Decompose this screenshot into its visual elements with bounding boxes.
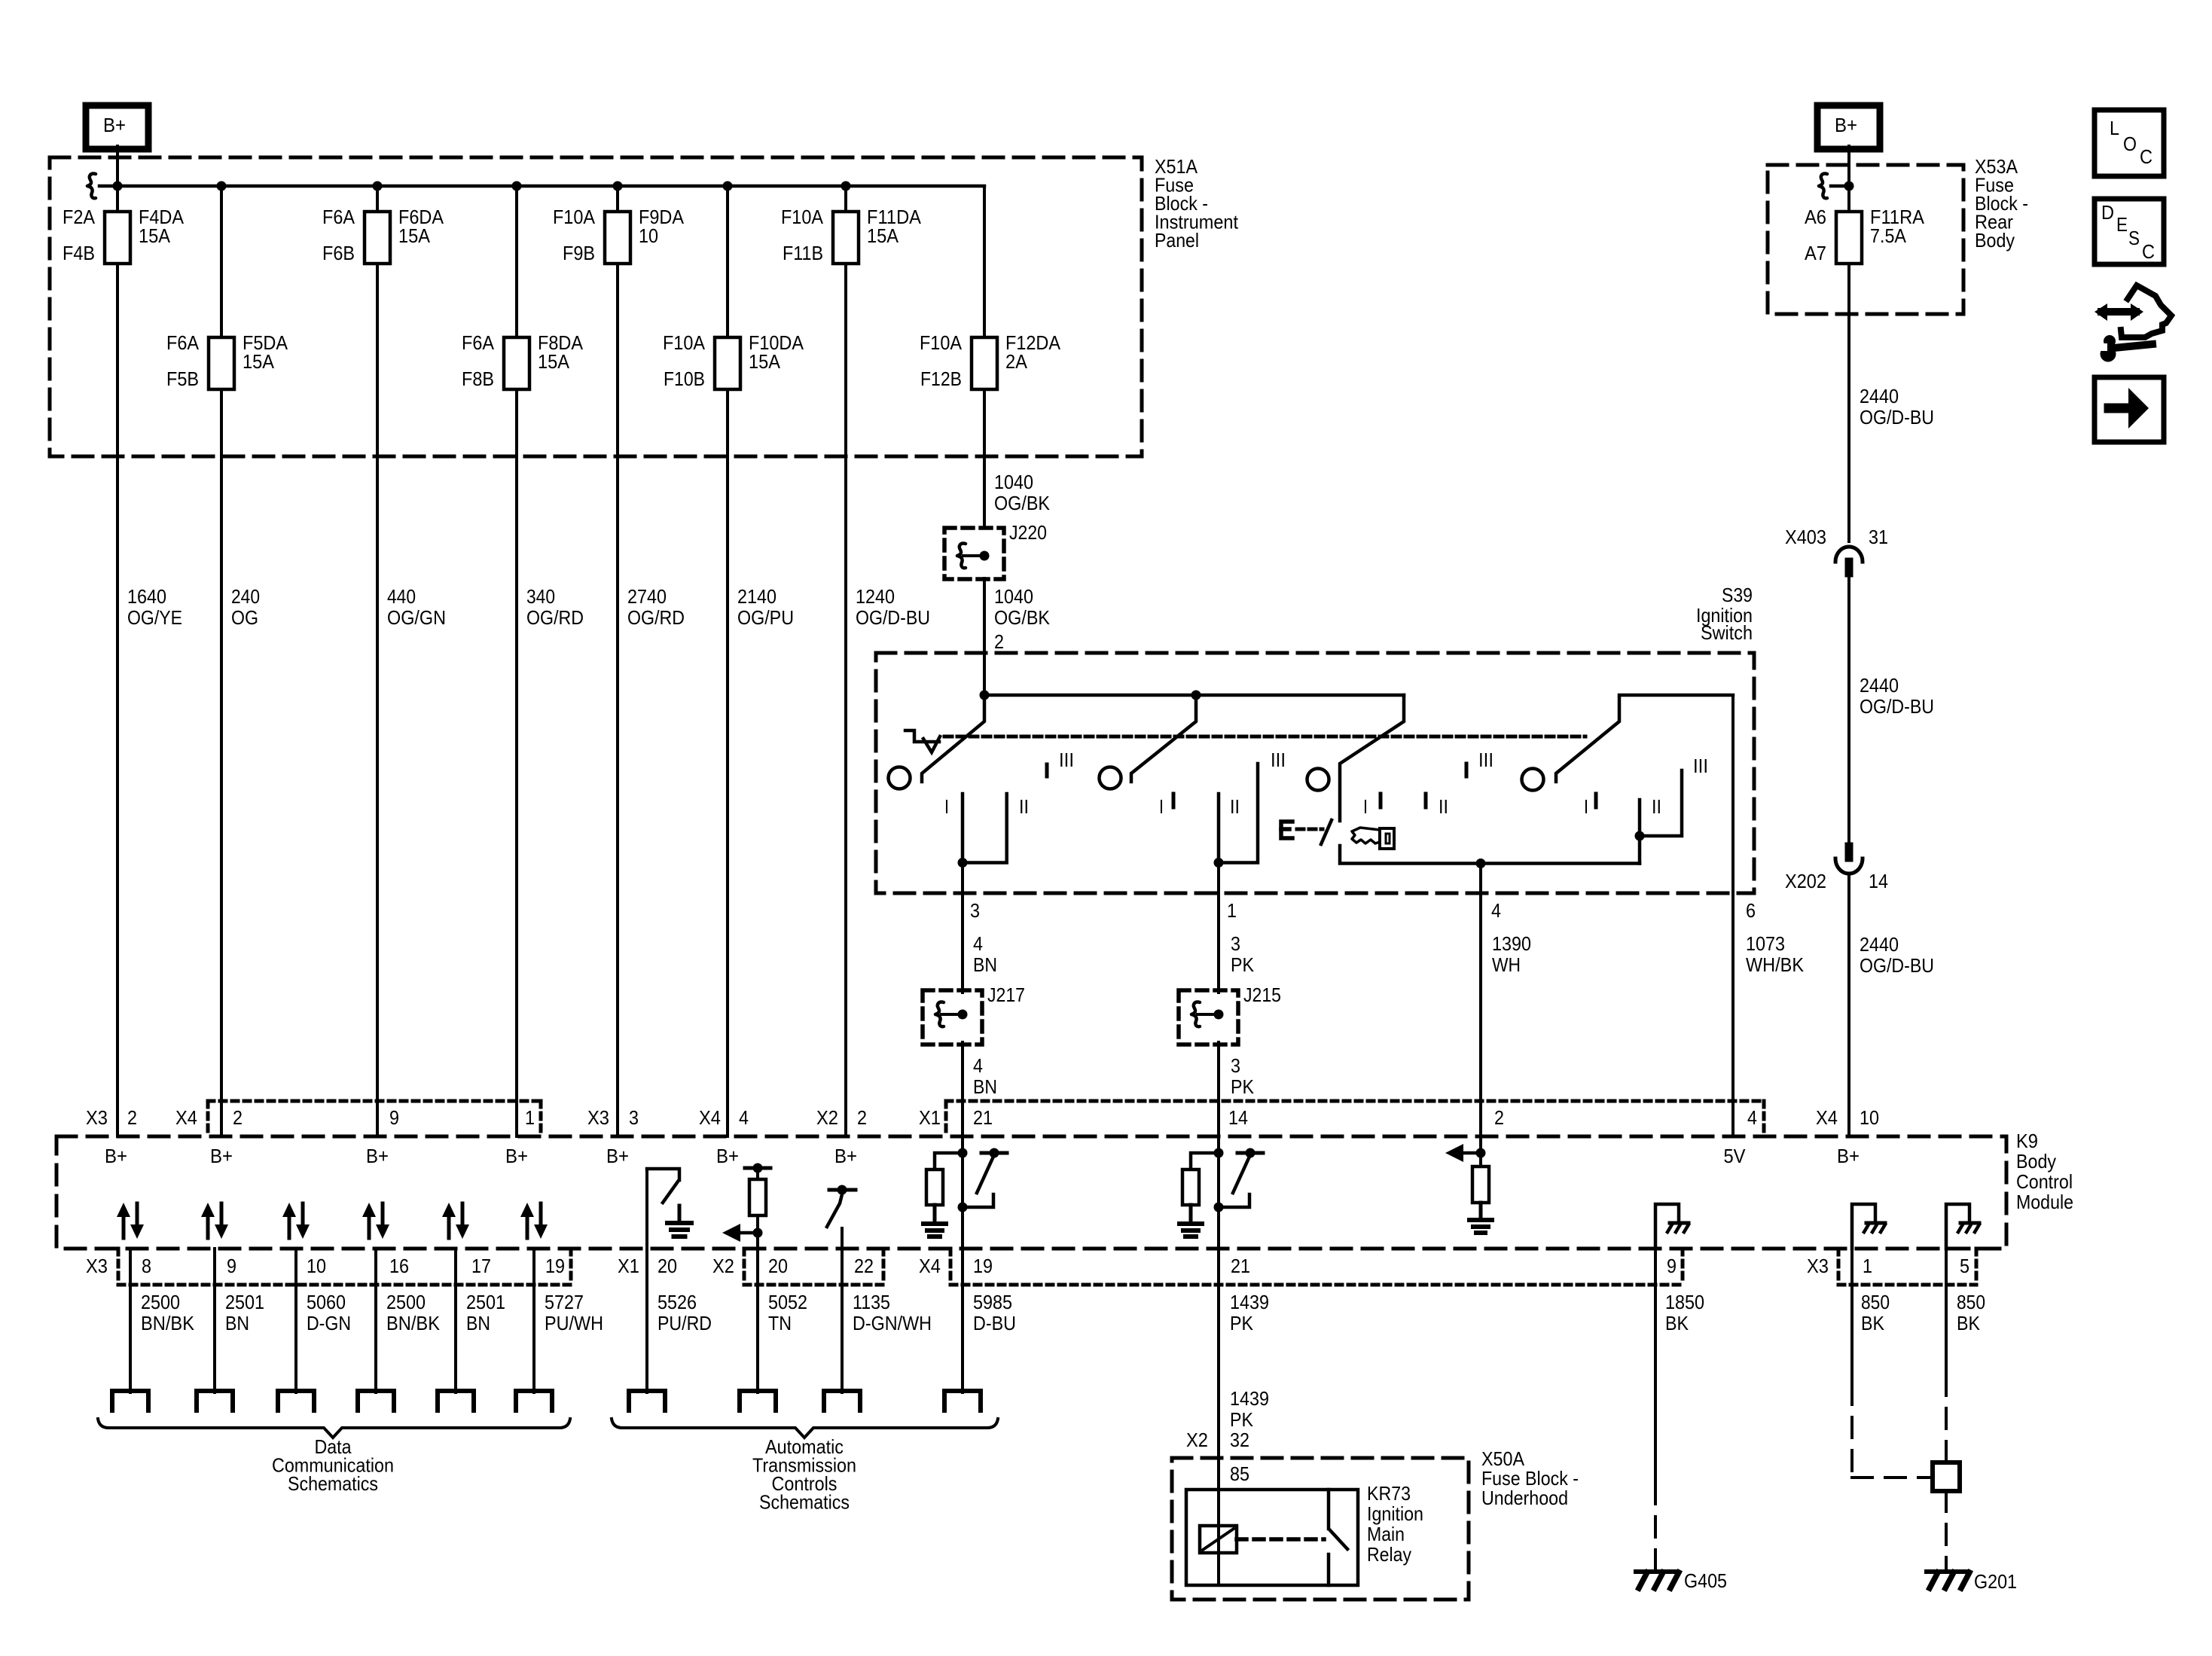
svg-text:F12B: F12B <box>920 367 962 390</box>
fuse block X53A box <box>1768 165 1963 314</box>
svg-text:17: 17 <box>471 1255 491 1277</box>
BCM internal switch (pin X2-22) <box>829 1188 856 1192</box>
svg-text:O: O <box>2123 133 2137 155</box>
S39 pin 4 wire <box>1479 864 1482 1137</box>
svg-text:II: II <box>1439 795 1448 818</box>
svg-text:15A: 15A <box>243 350 275 373</box>
wire 5727 PU/WH <box>532 1249 535 1392</box>
svg-text:3: 3 <box>629 1106 639 1129</box>
svg-text:2: 2 <box>857 1106 867 1129</box>
svg-text:9: 9 <box>227 1255 236 1277</box>
wire fuse column F5DA <box>220 186 223 1136</box>
svg-text:F10A: F10A <box>781 206 824 228</box>
svg-text:F11B: F11B <box>783 242 823 264</box>
wire 5526 PU/RD <box>645 1249 648 1392</box>
svg-text:5V: 5V <box>1724 1145 1747 1167</box>
svg-text:AutomaticTransmissionControlsS: AutomaticTransmissionControlsSchematics <box>752 1435 856 1514</box>
connector X202 pin 14 <box>1845 843 1853 862</box>
brace data communication group <box>98 1419 570 1438</box>
data arrow pair at pin wire x=499 <box>368 1216 371 1238</box>
current tap squiggle <box>1819 174 1827 199</box>
svg-text:III: III <box>1693 755 1708 777</box>
S39 ACC position dotted line <box>944 735 1585 739</box>
relay KR73 box <box>1186 1490 1358 1585</box>
connector group dotted box bottom (X3 pins 1,5) <box>1837 1249 1841 1285</box>
icon box forward arrow <box>2095 377 2164 442</box>
svg-text:I: I <box>1363 795 1368 818</box>
svg-text:6: 6 <box>1746 899 1756 922</box>
off-page terminal for wire 2500 <box>358 1391 394 1410</box>
svg-text:1: 1 <box>1863 1255 1872 1277</box>
wire stub to pin X1-20 <box>645 1169 648 1249</box>
connector group dotted box (X4 pins 2,9,1) <box>208 1099 541 1103</box>
svg-text:F10A: F10A <box>663 331 706 354</box>
svg-text:15A: 15A <box>749 350 781 373</box>
power symbol B+ (rear body feed) <box>1817 105 1880 149</box>
svg-text:8: 8 <box>142 1255 151 1277</box>
S39 switch pole 4 (5V feed arm -> pin 6) <box>1556 695 1733 782</box>
svg-text:15A: 15A <box>398 224 431 247</box>
svg-text:F9B: F9B <box>563 242 595 264</box>
svg-text:31: 31 <box>1869 526 1888 548</box>
fuse block X51A box <box>50 157 1142 456</box>
svg-text:B+: B+ <box>1835 114 1857 136</box>
svg-text:III: III <box>1059 749 1074 771</box>
S39 pin 6 wire <box>1731 695 1735 1136</box>
svg-text:32: 32 <box>1230 1429 1249 1451</box>
wire fuse column F4DA <box>116 186 119 1136</box>
svg-text:B+: B+ <box>606 1145 629 1167</box>
fuse F10DA (col6) <box>715 337 740 389</box>
fuse F12DA (col8) <box>972 337 997 389</box>
svg-text:F6A: F6A <box>166 331 200 354</box>
wire 1040 OG/BK to ignition switch <box>983 578 986 695</box>
svg-text:F6A: F6A <box>462 331 495 354</box>
off-page terminal for wire 2500 <box>112 1391 148 1410</box>
svg-text:A7: A7 <box>1805 242 1826 264</box>
svg-text:X3: X3 <box>1807 1255 1829 1277</box>
svg-text:F10B: F10B <box>664 367 705 390</box>
S39 switch pole 1 (ACC/RUN -> pin 3) <box>922 695 984 782</box>
wire fuse column F8DA <box>515 186 518 1136</box>
svg-text:II: II <box>1230 795 1240 818</box>
svg-text:21: 21 <box>1231 1255 1250 1277</box>
svg-text:F10A: F10A <box>920 331 963 354</box>
wire 1439 PK from pin 21 <box>1217 1249 1220 1490</box>
splice J217 <box>923 990 982 1045</box>
pole 3 lower contact to bus <box>1340 846 1640 864</box>
svg-text:J215: J215 <box>1243 984 1281 1006</box>
connector group dotted box bottom (X3 pins 8..19) <box>117 1249 121 1285</box>
svg-text:21: 21 <box>973 1106 993 1129</box>
S39 ACC symbol <box>905 730 939 742</box>
svg-text:G201: G201 <box>1974 1570 2017 1593</box>
svg-text:X1: X1 <box>618 1255 639 1277</box>
svg-text:I: I <box>1584 795 1588 818</box>
svg-text:F2A: F2A <box>63 206 96 228</box>
svg-text:1: 1 <box>525 1106 535 1129</box>
wire 5052 TN <box>756 1249 759 1392</box>
svg-text:9: 9 <box>1667 1255 1677 1277</box>
wire 2440 OG/D-BU lower segment <box>1847 875 1850 1136</box>
svg-text:2: 2 <box>1494 1106 1504 1129</box>
svg-text:C: C <box>2140 145 2153 168</box>
svg-text:F6B: F6B <box>322 242 355 264</box>
fuse F5DA (col2) <box>209 337 234 389</box>
BCM internal resistor + output arrow (pin X2-20) <box>745 1167 770 1170</box>
svg-text:B+: B+ <box>1837 1145 1860 1167</box>
data arrow pair at pin wire x=393 <box>288 1216 291 1238</box>
svg-text:2A: 2A <box>1005 350 1028 373</box>
off-page terminal for wire 5985 <box>944 1391 981 1410</box>
connector group dotted box bottom (X2 pins 20,22) <box>743 1249 746 1285</box>
svg-text:F4B: F4B <box>63 242 95 264</box>
svg-text:X1: X1 <box>919 1106 941 1129</box>
bus wire inside X51A <box>99 185 984 188</box>
fuse F8DA (col4) <box>504 337 529 389</box>
ground G201 <box>1927 1569 1966 1574</box>
svg-text:X202: X202 <box>1785 870 1826 892</box>
off-page terminal for wire 5052 <box>740 1391 776 1410</box>
relay switch contact <box>1327 1490 1331 1529</box>
svg-text:I: I <box>1159 795 1164 818</box>
splice J220 <box>944 528 1004 579</box>
svg-text:B+: B+ <box>210 1145 233 1167</box>
svg-text:2: 2 <box>994 630 1004 653</box>
ignition key icon <box>1352 828 1380 843</box>
wire 5060 D-GN <box>294 1249 297 1392</box>
svg-text:85: 85 <box>1230 1462 1249 1485</box>
svg-text:X3: X3 <box>587 1106 609 1129</box>
connector group dotted box (X1/X2 pins 21,14,2,4) <box>946 1099 1764 1103</box>
svg-text:L: L <box>2110 117 2119 139</box>
current tap squiggle <box>87 174 96 199</box>
connector X403 pin 31 <box>1835 547 1863 562</box>
svg-text:2: 2 <box>127 1106 137 1129</box>
svg-text:5: 5 <box>1960 1255 1969 1277</box>
S39 feed wire from pin 2 <box>983 653 986 695</box>
svg-text:7.5A: 7.5A <box>1870 224 1907 247</box>
svg-text:4: 4 <box>1747 1106 1757 1129</box>
svg-text:19: 19 <box>545 1255 565 1277</box>
svg-text:G405: G405 <box>1684 1569 1727 1592</box>
svg-text:B+: B+ <box>105 1145 127 1167</box>
wire B+ into X53A <box>1847 146 1850 212</box>
BCM internal 5V sense resistor (pin X2-2 wire) <box>1479 1136 1482 1153</box>
svg-text:Switch: Switch <box>1701 621 1753 644</box>
svg-text:F8B: F8B <box>462 367 494 390</box>
svg-text:X403: X403 <box>1785 526 1826 548</box>
S39 pin 3 wire <box>961 863 964 993</box>
svg-text:II: II <box>1652 795 1661 818</box>
svg-text:F10A: F10A <box>553 206 596 228</box>
icon box LOC <box>2095 110 2164 176</box>
off-page terminal for wire 5526 <box>629 1391 665 1410</box>
fuse F6DA (col3) <box>365 212 390 264</box>
BCM internal chassis ground (pin wire x=2584) <box>1946 1204 1969 1249</box>
off-page terminal for wire 1135 <box>824 1391 860 1410</box>
brace automatic transmission group <box>612 1419 998 1438</box>
svg-text:20: 20 <box>657 1255 677 1277</box>
S39 internal feed bus <box>984 694 1404 697</box>
ignition switch S39 box <box>876 653 1754 893</box>
fuse F11RA (F11RA) <box>1836 212 1862 264</box>
svg-text:B+: B+ <box>505 1145 528 1167</box>
pole 3 moving tip <box>1321 820 1332 844</box>
svg-text:14: 14 <box>1869 870 1888 892</box>
svg-text:III: III <box>1478 749 1493 771</box>
wire fuse column F9DA <box>616 186 619 1136</box>
svg-text:J217: J217 <box>987 984 1025 1006</box>
BCM internal chassis ground (pin wire x=2198) <box>1655 1204 1679 1249</box>
wire fuse column F12DA <box>983 186 986 528</box>
icon harness routing (arrow + outline + wrench) <box>2101 308 2136 316</box>
wire 850 BK (X3-1) <box>1850 1249 1854 1384</box>
svg-text:20: 20 <box>768 1255 788 1277</box>
svg-text:5985D-BU: 5985D-BU <box>973 1291 1016 1334</box>
S39 pin 1 wire <box>1217 863 1220 993</box>
wire 2501 BN <box>454 1249 457 1392</box>
svg-text:1: 1 <box>1227 899 1237 922</box>
wire 1135 D-GN/WH <box>841 1249 844 1392</box>
svg-text:B+: B+ <box>834 1145 857 1167</box>
svg-text:X3: X3 <box>86 1255 108 1277</box>
icon box DESC <box>2095 199 2164 264</box>
splice J215 <box>1179 990 1238 1045</box>
svg-text:9: 9 <box>389 1106 399 1129</box>
svg-text:F6A: F6A <box>322 206 355 228</box>
svg-text:19: 19 <box>973 1255 993 1277</box>
body control module K9 box <box>56 1136 2006 1249</box>
svg-text:II: II <box>1019 795 1029 818</box>
svg-text:2: 2 <box>233 1106 243 1129</box>
off-page terminal for wire 5060 <box>278 1391 314 1410</box>
data arrow pair at pin wire x=709 <box>526 1216 529 1238</box>
key release E symbol <box>1281 822 1292 838</box>
data arrow pair at pin wire x=173 <box>122 1216 126 1238</box>
svg-text:X2: X2 <box>712 1255 734 1277</box>
fuse F11DA (col7) <box>833 212 859 264</box>
fuse F9DA (col5) <box>605 212 630 264</box>
BCM internal resistor + switch on wire x=1618 <box>1214 1148 1224 1158</box>
data arrow pair at pin wire x=285 <box>206 1216 210 1238</box>
power symbol B+ (instrument panel feed) <box>86 105 148 149</box>
svg-text:15A: 15A <box>139 224 171 247</box>
BCM internal switch to ground (pin X1-20) <box>647 1169 679 1180</box>
relay coil <box>1217 1490 1220 1585</box>
fuse block X50A box <box>1172 1458 1469 1600</box>
BCM internal chassis ground (pin wire x=2459) <box>1852 1204 1875 1249</box>
wire 4 BN lower <box>961 1042 964 1136</box>
wire 1850 BK <box>1654 1249 1657 1484</box>
svg-text:10: 10 <box>639 224 658 247</box>
svg-text:10: 10 <box>307 1255 326 1277</box>
wire 2500 BN/BK <box>129 1249 132 1392</box>
svg-text:III: III <box>1271 749 1286 771</box>
svg-text:240OG: 240OG <box>231 585 260 629</box>
wire 850 BK (X3-5) <box>1945 1249 1948 1375</box>
svg-text:16: 16 <box>389 1255 409 1277</box>
S39 switch pole 3 (key start contact -> pin 4) <box>1340 695 1404 821</box>
svg-text:B+: B+ <box>103 114 126 136</box>
svg-text:4: 4 <box>1491 899 1501 922</box>
svg-text:X4: X4 <box>175 1106 197 1129</box>
svg-text:10: 10 <box>1860 1106 1879 1129</box>
svg-text:X2: X2 <box>816 1106 838 1129</box>
wire 2440 OG/D-BU upper segment <box>1847 264 1850 541</box>
svg-text:B+: B+ <box>366 1145 389 1167</box>
svg-text:S: S <box>2128 227 2140 249</box>
svg-text:J220: J220 <box>1009 521 1047 544</box>
off-page terminal for wire 2501 <box>197 1391 233 1410</box>
wire 2501 BN <box>213 1249 216 1392</box>
svg-text:5060D-GN: 5060D-GN <box>307 1291 351 1334</box>
svg-text:15A: 15A <box>867 224 899 247</box>
wire 2500 BN/BK <box>374 1249 377 1392</box>
svg-text:X4: X4 <box>1816 1106 1838 1129</box>
ground G405 <box>1636 1569 1676 1574</box>
svg-text:F5B: F5B <box>166 367 199 390</box>
svg-text:I: I <box>944 795 949 818</box>
svg-text:15A: 15A <box>538 350 570 373</box>
svg-text:Underhood: Underhood <box>1481 1487 1568 1509</box>
svg-text:X4: X4 <box>699 1106 721 1129</box>
relay mechanical link <box>1237 1537 1324 1542</box>
svg-text:C: C <box>2142 240 2155 263</box>
svg-text:22: 22 <box>854 1255 874 1277</box>
svg-text:14: 14 <box>1228 1106 1248 1129</box>
svg-text:D: D <box>2101 201 2114 224</box>
connector group dotted box bottom (X4 pins 19,21,9) <box>949 1249 953 1285</box>
wire 5985 D-BU <box>961 1249 964 1392</box>
wire 3 PK lower <box>1217 1042 1220 1136</box>
BCM internal resistor + switch on wire x=1278 <box>958 1148 968 1158</box>
fuse F4DA (col1) <box>105 212 130 264</box>
wire fuse column F11DA <box>844 186 847 1136</box>
svg-text:4: 4 <box>739 1106 749 1129</box>
off-page terminal for wire 2501 <box>438 1391 474 1410</box>
S39 switch pole 2 (RUN/START -> pin 1) <box>1131 695 1196 782</box>
svg-text:3: 3 <box>970 899 980 922</box>
wire fuse column F6DA <box>376 186 379 1136</box>
wire 2440 OG/D-BU middle segment <box>1847 577 1850 843</box>
data arrow pair at pin wire x=605 <box>447 1216 451 1238</box>
svg-text:X4: X4 <box>919 1255 941 1277</box>
svg-text:S39: S39 <box>1722 584 1753 606</box>
wire fuse column F10DA <box>726 186 729 1136</box>
svg-text:B+: B+ <box>716 1145 739 1167</box>
svg-text:X3: X3 <box>86 1106 108 1129</box>
off-page terminal for wire 5727 <box>516 1391 552 1410</box>
svg-text:E: E <box>2116 213 2128 236</box>
wire B+ into fuse block <box>116 146 119 186</box>
svg-text:A6: A6 <box>1805 206 1826 228</box>
off-page ground junction square <box>1933 1462 1960 1491</box>
svg-text:X2: X2 <box>1186 1429 1208 1451</box>
